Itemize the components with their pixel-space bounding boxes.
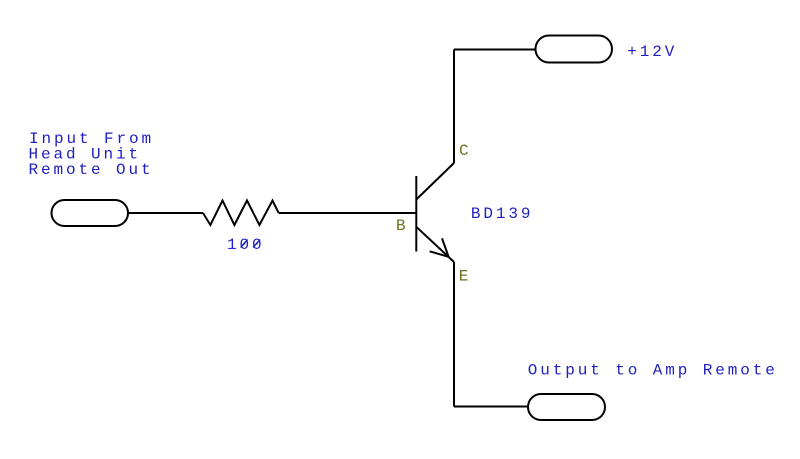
wire from input pill to resistor — [127, 212, 203, 214]
svg-text:+12V: +12V — [627, 43, 677, 61]
svg-text:E: E — [459, 267, 472, 285]
wire to +12V pill — [454, 49, 536, 51]
transistor Q1 emitter stroke — [416, 227, 454, 262]
connector pill output — [528, 394, 605, 420]
wire emitter vertical — [453, 262, 455, 407]
svg-text:100: 100 — [227, 236, 265, 254]
transistor Q1 base bar — [415, 176, 417, 252]
value label 100 — [227, 236, 265, 254]
transistor Q1 collector stroke — [416, 163, 454, 200]
svg-text:Output to Amp Remote: Output to Amp Remote — [528, 361, 778, 379]
wire to output pill — [454, 406, 529, 408]
connector pill +12V — [536, 36, 613, 63]
svg-text:B: B — [396, 217, 409, 235]
resistor R1 — [203, 201, 279, 226]
svg-text:Remote Out: Remote Out — [29, 161, 154, 179]
connector pill J1 (input) — [52, 200, 129, 226]
svg-text:C: C — [459, 142, 472, 160]
wire from resistor to transistor base — [279, 212, 417, 214]
svg-text:BD139: BD139 — [471, 205, 534, 223]
net label Input From Head Unit Remote Out — [29, 130, 155, 179]
wire collector vertical — [453, 50, 455, 164]
transistor Q1 emitter arrow — [430, 238, 449, 256]
